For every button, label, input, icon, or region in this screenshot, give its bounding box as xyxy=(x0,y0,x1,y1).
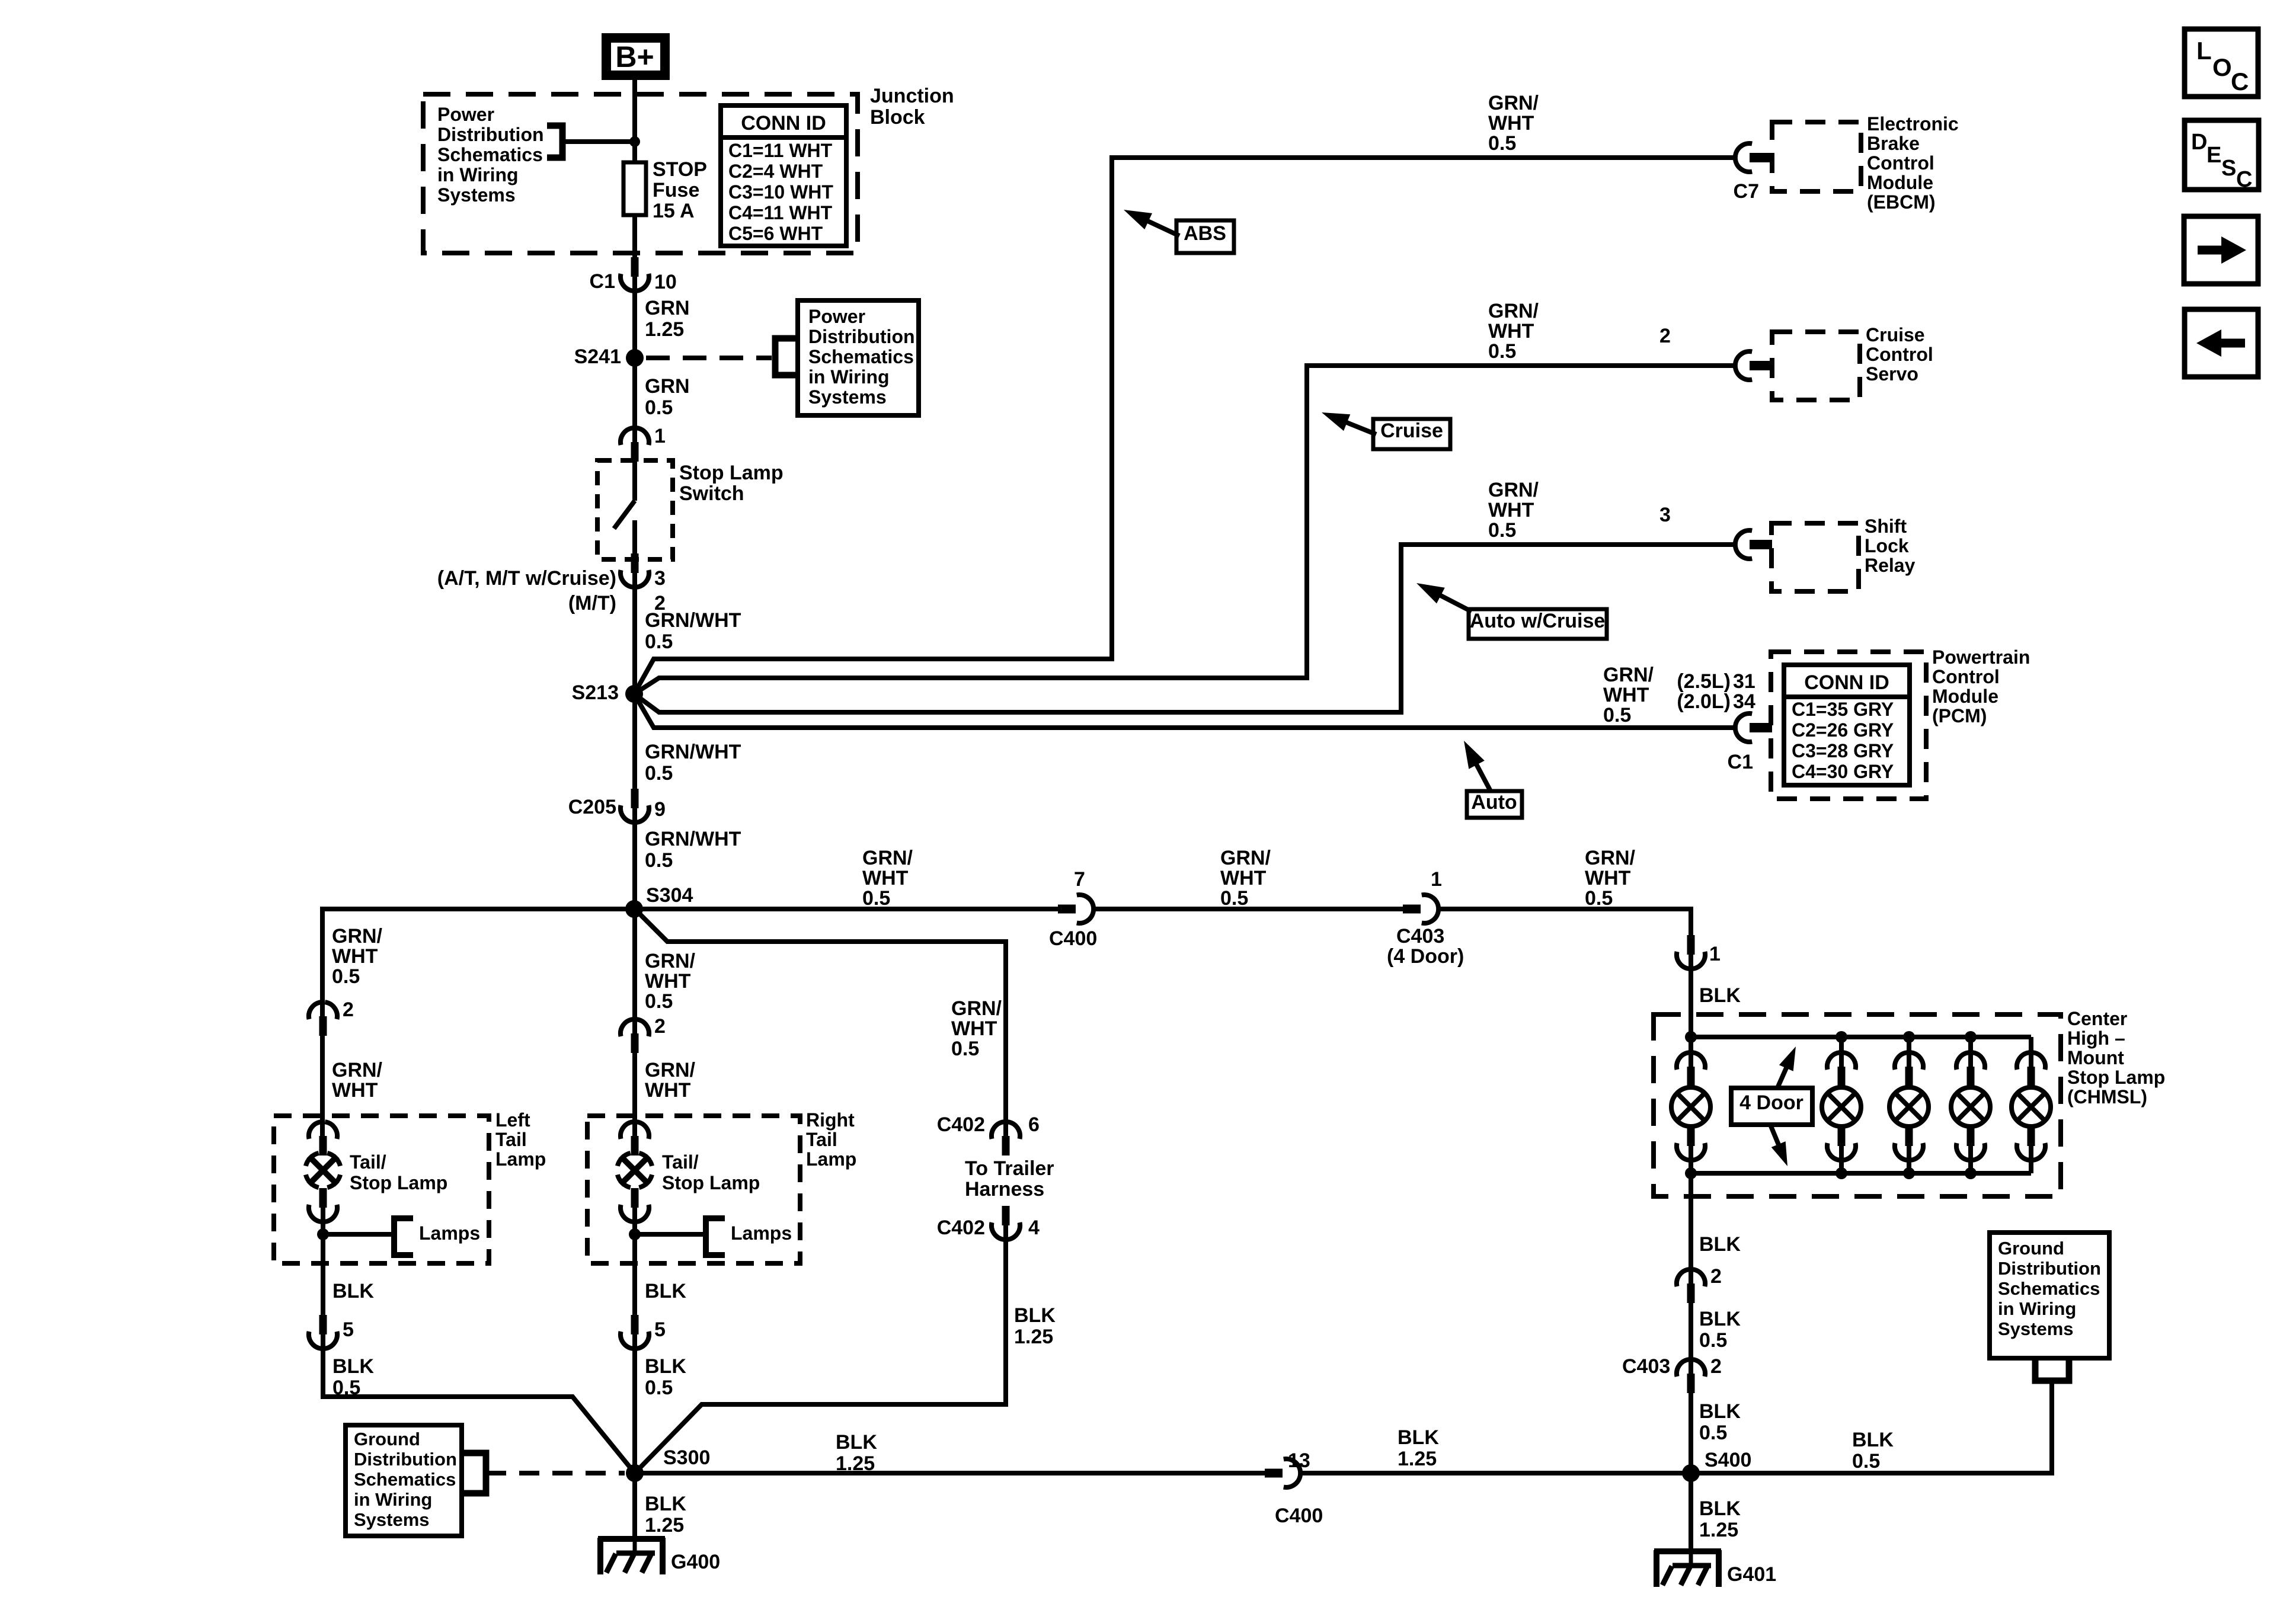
CHMSL bulb 3 xyxy=(1889,1087,1929,1126)
svg-text:C7: C7 xyxy=(1734,180,1759,203)
CHMSL bulb 2 leads xyxy=(1839,1037,1844,1067)
CHMSL bottom bus xyxy=(1691,1171,2031,1176)
svg-text:Stop Lamp: Stop Lamp xyxy=(2067,1067,2165,1088)
wire S213 to cruise servo xyxy=(634,366,1735,694)
wire S304 to trailer xyxy=(635,909,1006,1136)
Auto w/Cruise tag xyxy=(1469,609,1607,639)
connector C403 pin 2 xyxy=(1687,1374,1695,1393)
svg-text:C403: C403 xyxy=(1622,1355,1670,1378)
svg-text:BLK: BLK xyxy=(1699,1400,1741,1423)
splice S300 xyxy=(626,1464,644,1482)
svg-text:C402: C402 xyxy=(937,1113,985,1136)
wire C403-2 to S400 xyxy=(1689,1393,1693,1473)
svg-text:Right: Right xyxy=(806,1109,855,1131)
splice S241 xyxy=(626,349,644,367)
svg-text:WHT: WHT xyxy=(1488,320,1534,343)
svg-text:Power: Power xyxy=(808,306,865,327)
svg-text:C2=4 WHT: C2=4 WHT xyxy=(728,161,823,182)
svg-text:BLK: BLK xyxy=(332,1280,374,1302)
svg-text:C400: C400 xyxy=(1275,1505,1323,1527)
svg-text:Cruise: Cruise xyxy=(1380,420,1443,442)
svg-text:Lock: Lock xyxy=(1865,535,1909,556)
svg-text:GRN/WHT: GRN/WHT xyxy=(645,609,741,632)
CHMSL bulb 1 xyxy=(1671,1087,1710,1126)
svg-text:in Wiring: in Wiring xyxy=(808,366,890,388)
wire to C403 pin 2 xyxy=(1689,1303,1693,1374)
svg-text:Lamps: Lamps xyxy=(731,1222,792,1244)
svg-text:C3=10 WHT: C3=10 WHT xyxy=(728,181,833,203)
ground distribution box right xyxy=(1990,1233,2109,1358)
svg-text:C4=11 WHT: C4=11 WHT xyxy=(728,202,833,223)
svg-text:2: 2 xyxy=(1710,1265,1722,1288)
right Lamps bracket wire xyxy=(635,1232,706,1237)
right lamp bulb xyxy=(639,1174,652,1188)
svg-text:Lamp: Lamp xyxy=(806,1148,856,1170)
svg-text:Tail: Tail xyxy=(495,1129,527,1150)
svg-text:BLK: BLK xyxy=(1398,1426,1439,1449)
ABS arrow xyxy=(1145,220,1179,236)
svg-text:Systems: Systems xyxy=(437,184,516,206)
wire S304 middle xyxy=(632,909,637,1033)
power distribution ref box xyxy=(798,300,919,415)
svg-text:S241: S241 xyxy=(574,345,621,368)
EBCM box xyxy=(1772,122,1861,191)
CHMSL box xyxy=(1654,1014,2061,1196)
svg-text:G400: G400 xyxy=(671,1551,720,1573)
svg-text:C3=28 GRY: C3=28 GRY xyxy=(1792,740,1894,761)
svg-text:Systems: Systems xyxy=(808,386,887,408)
svg-text:2: 2 xyxy=(1710,1355,1722,1378)
svg-text:GRN/: GRN/ xyxy=(1603,664,1654,686)
svg-text:C1=35 GRY: C1=35 GRY xyxy=(1792,699,1894,720)
svg-text:0.5: 0.5 xyxy=(645,849,673,872)
ground distribution box left xyxy=(346,1425,462,1536)
right lamp bottom connector xyxy=(631,1188,639,1208)
svg-text:Auto w/Cruise: Auto w/Cruise xyxy=(1470,610,1606,632)
connector left lamp pin 5 xyxy=(319,1315,327,1334)
svg-text:Tail/: Tail/ xyxy=(350,1151,386,1173)
wire right lamp to S300 xyxy=(632,1334,637,1473)
cruise control servo box xyxy=(1772,332,1860,400)
svg-text:in Wiring: in Wiring xyxy=(437,164,519,185)
svg-text:E: E xyxy=(2207,143,2221,168)
node CHMSL bottom bus xyxy=(1685,1167,1697,1179)
svg-text:0.5: 0.5 xyxy=(951,1038,979,1060)
wire S300 to G400 xyxy=(632,1473,637,1539)
svg-text:2: 2 xyxy=(654,1015,666,1038)
svg-text:Auto: Auto xyxy=(1471,791,1517,814)
svg-text:Control: Control xyxy=(1866,344,1933,365)
svg-text:Power: Power xyxy=(437,104,494,125)
wire trailer to S300 xyxy=(635,1225,1006,1473)
ground G401 xyxy=(1654,1548,1721,1554)
svg-text:Servo: Servo xyxy=(1866,363,1918,385)
svg-text:0.5: 0.5 xyxy=(645,1377,673,1399)
CHMSL top bus xyxy=(1691,1035,2031,1039)
svg-text:BLK: BLK xyxy=(1699,1308,1741,1330)
wire into CHMSL xyxy=(1689,955,1693,1037)
svg-text:Control: Control xyxy=(1932,666,2000,687)
node left lamp xyxy=(317,1228,329,1240)
svg-text:0.5: 0.5 xyxy=(1220,887,1248,910)
stop lamp switch contacts xyxy=(632,462,637,501)
svg-text:C400: C400 xyxy=(1049,927,1097,950)
svg-text:High –: High – xyxy=(2067,1028,2125,1049)
svg-text:0.5: 0.5 xyxy=(862,887,890,910)
svg-text:WHT: WHT xyxy=(645,1079,691,1102)
node CHMSL top bus xyxy=(1835,1031,1847,1043)
svg-text:9: 9 xyxy=(654,798,666,821)
battery feed B+ terminal xyxy=(606,38,665,75)
svg-text:0.5: 0.5 xyxy=(645,762,673,785)
svg-text:(2.5L): (2.5L) xyxy=(1677,670,1731,693)
wire C403 to CHMSL xyxy=(1438,909,1691,936)
connector right lamp pin 5 xyxy=(631,1315,639,1334)
wire fuse to C1 xyxy=(632,215,637,263)
power distribution bracket xyxy=(547,126,562,158)
svg-text:Tail/: Tail/ xyxy=(662,1151,699,1173)
svg-text:GRN/: GRN/ xyxy=(332,925,383,948)
right lamp wire to node xyxy=(632,1208,637,1234)
svg-text:7: 7 xyxy=(1074,868,1085,891)
svg-text:0.5: 0.5 xyxy=(1585,887,1613,910)
svg-text:in Wiring: in Wiring xyxy=(1998,1298,2076,1319)
CHMSL bulb 1 leads xyxy=(1689,1037,1693,1067)
shift lock relay box xyxy=(1771,523,1859,591)
svg-text:GRN/: GRN/ xyxy=(645,1059,696,1081)
connector right lamp pin 2 xyxy=(631,1033,639,1053)
svg-text:BLK: BLK xyxy=(645,1280,686,1302)
svg-text:2: 2 xyxy=(343,998,354,1021)
svg-text:0.5: 0.5 xyxy=(1699,1422,1727,1444)
node CHMSL bottom bus xyxy=(1965,1167,1977,1179)
svg-text:WHT: WHT xyxy=(1220,867,1267,889)
svg-text:Module: Module xyxy=(1932,686,1998,707)
wire C1 to stop lamp switch xyxy=(632,277,637,442)
svg-text:Stop Lamp: Stop Lamp xyxy=(350,1172,447,1193)
wire to right lamp xyxy=(632,1053,637,1136)
svg-text:C205: C205 xyxy=(568,796,616,818)
left lamp bottom connector xyxy=(319,1188,327,1208)
prev page icon xyxy=(2185,309,2258,377)
svg-text:WHT: WHT xyxy=(1585,867,1631,889)
right Lamps bracket xyxy=(706,1218,725,1255)
svg-text:GRN/: GRN/ xyxy=(1488,92,1539,114)
wire switch to C205 xyxy=(632,573,637,790)
svg-text:Harness: Harness xyxy=(965,1178,1044,1201)
CHMSL bulb 1 bottom connector xyxy=(1687,1126,1695,1146)
connector left lamp pin 2 xyxy=(319,1016,327,1036)
PCM CONN ID table xyxy=(1784,665,1910,785)
connector C1 pin 10 xyxy=(631,257,639,277)
node CHMSL top bus xyxy=(1903,1031,1915,1043)
svg-text:WHT: WHT xyxy=(1488,499,1534,521)
svg-text:0.5: 0.5 xyxy=(1699,1329,1727,1352)
svg-text:Distribution: Distribution xyxy=(354,1449,457,1470)
junction block CONN ID table xyxy=(721,105,846,246)
svg-text:(2.0L): (2.0L) xyxy=(1677,690,1731,713)
svg-text:WHT: WHT xyxy=(862,867,909,889)
svg-text:BLK: BLK xyxy=(332,1355,374,1378)
svg-text:BLK: BLK xyxy=(1852,1429,1894,1451)
svg-text:0.5: 0.5 xyxy=(332,965,360,988)
svg-text:Control: Control xyxy=(1867,152,1934,174)
connector C402 pin 4 xyxy=(1002,1206,1010,1225)
svg-text:0.5: 0.5 xyxy=(1852,1450,1880,1473)
svg-text:Switch: Switch xyxy=(679,482,744,505)
wire CHMSL out xyxy=(1689,1173,1693,1283)
svg-text:Schematics: Schematics xyxy=(808,346,914,367)
svg-text:WHT: WHT xyxy=(645,970,691,993)
ground G400 xyxy=(598,1536,665,1542)
connector C7 xyxy=(1750,153,1772,162)
CHMSL bulb 3 top connector xyxy=(1905,1067,1913,1086)
CHMSL bulb 2 bottom connector xyxy=(1838,1126,1846,1146)
svg-text:Stop Lamp: Stop Lamp xyxy=(679,462,784,484)
wire bracket to main xyxy=(562,139,635,144)
connector C403 pin 1 xyxy=(1403,905,1421,914)
svg-text:Distribution: Distribution xyxy=(808,326,915,347)
svg-text:1.25: 1.25 xyxy=(1699,1519,1738,1541)
svg-text:0.5: 0.5 xyxy=(645,396,673,419)
svg-text:31: 31 xyxy=(1733,670,1755,693)
svg-text:ABS: ABS xyxy=(1184,222,1226,245)
CHMSL bulb 3 leads xyxy=(1907,1037,1911,1067)
right lamp wire down xyxy=(632,1234,637,1317)
svg-text:S304: S304 xyxy=(646,884,693,907)
svg-text:Block: Block xyxy=(870,106,925,129)
left Lamps bracket wire xyxy=(323,1232,394,1237)
svg-text:Relay: Relay xyxy=(1865,555,1916,576)
CHMSL bulb 3 bottom connector xyxy=(1905,1126,1913,1146)
svg-text:WHT: WHT xyxy=(1603,684,1649,706)
svg-text:1.25: 1.25 xyxy=(1014,1326,1053,1348)
svg-text:Cruise: Cruise xyxy=(1866,324,1925,345)
svg-text:WHT: WHT xyxy=(1488,112,1534,135)
svg-text:1.25: 1.25 xyxy=(1398,1448,1437,1470)
svg-text:Junction: Junction xyxy=(870,85,954,107)
svg-text:Systems: Systems xyxy=(354,1509,430,1530)
splice S213 xyxy=(625,685,643,703)
CHMSL bulb 4 bottom connector xyxy=(1967,1126,1975,1146)
svg-text:Tail: Tail xyxy=(806,1129,837,1150)
svg-text:13: 13 xyxy=(1288,1449,1310,1472)
svg-text:C5=6 WHT: C5=6 WHT xyxy=(728,223,823,244)
svg-text:C1=11 WHT: C1=11 WHT xyxy=(728,140,833,161)
wire S300 to C400-13 xyxy=(635,1471,1267,1475)
svg-text:BLK: BLK xyxy=(836,1431,877,1454)
svg-text:CONN ID: CONN ID xyxy=(741,112,826,135)
CHMSL bulb 5 top connector xyxy=(2028,1067,2035,1086)
node fuse tap xyxy=(629,136,640,147)
connector relay pin 3 xyxy=(1750,540,1772,549)
svg-text:Lamps: Lamps xyxy=(419,1222,480,1244)
svg-text:C403: C403 xyxy=(1396,925,1444,948)
4 Door tag xyxy=(1731,1088,1812,1125)
svg-text:0.5: 0.5 xyxy=(1603,704,1631,726)
wire S400 right xyxy=(1691,1378,2052,1473)
CHMSL bulb 4 xyxy=(1951,1087,1990,1126)
svg-text:(EBCM): (EBCM) xyxy=(1867,191,1936,213)
svg-text:STOP: STOP xyxy=(653,158,707,181)
svg-text:34: 34 xyxy=(1733,690,1755,713)
wire S213 to PCM xyxy=(634,694,1735,728)
S400 ref bracket xyxy=(2035,1358,2069,1381)
svg-text:L: L xyxy=(2196,37,2212,65)
CHMSL bulb 5 xyxy=(2012,1087,2051,1126)
svg-text:GRN/: GRN/ xyxy=(1585,847,1636,869)
svg-text:C: C xyxy=(2231,68,2249,95)
connector C400 pin 7 xyxy=(1058,905,1076,914)
connector C402 pin 6 xyxy=(1002,1136,1010,1156)
svg-text:Brake: Brake xyxy=(1867,133,1920,154)
svg-text:Center: Center xyxy=(2067,1008,2127,1029)
CHMSL bulb 4 leads xyxy=(1968,1037,1973,1067)
connector 1 stop lamp switch xyxy=(631,442,639,462)
connector CHMSL pin 1 xyxy=(1687,935,1695,955)
svg-text:Powertrain: Powertrain xyxy=(1932,646,2030,668)
svg-text:4: 4 xyxy=(1028,1217,1040,1239)
left lamp wire down xyxy=(321,1234,325,1317)
svg-text:GRN/: GRN/ xyxy=(645,950,696,972)
svg-text:Schematics: Schematics xyxy=(1998,1278,2100,1299)
S300 ref bracket xyxy=(462,1453,486,1493)
svg-text:C1: C1 xyxy=(1728,751,1753,773)
svg-text:Stop Lamp: Stop Lamp xyxy=(662,1172,760,1193)
svg-text:Schematics: Schematics xyxy=(437,144,543,165)
right lamp top connector xyxy=(631,1136,639,1156)
svg-text:Ground: Ground xyxy=(354,1429,420,1449)
LOC icon xyxy=(2185,29,2258,97)
svg-text:(A/T, M/T w/Cruise): (A/T, M/T w/Cruise) xyxy=(437,567,616,590)
svg-text:S400: S400 xyxy=(1705,1449,1751,1471)
svg-text:Schematics: Schematics xyxy=(354,1469,456,1490)
svg-text:Left: Left xyxy=(495,1109,530,1131)
connector C205 pin 9 xyxy=(631,789,639,808)
left lamp bulb xyxy=(327,1174,340,1188)
svg-text:G401: G401 xyxy=(1727,1563,1776,1586)
svg-text:1: 1 xyxy=(654,425,666,447)
right tail lamp box xyxy=(587,1116,800,1263)
svg-text:WHT: WHT xyxy=(332,1079,378,1102)
connector servo pin 2 xyxy=(1750,361,1772,370)
CHMSL bulb 2 xyxy=(1822,1087,1861,1126)
svg-text:S213: S213 xyxy=(572,681,619,704)
connector CHMSL pin 2 xyxy=(1687,1283,1695,1303)
node CHMSL bottom bus xyxy=(1835,1167,1847,1179)
wire S304 to C400 xyxy=(635,907,1059,911)
Auto w/Cruise arrow xyxy=(1438,594,1472,612)
svg-text:5: 5 xyxy=(343,1318,354,1341)
svg-text:BLK: BLK xyxy=(1699,1497,1741,1520)
svg-text:0.5: 0.5 xyxy=(645,990,673,1013)
wire C400 to C403 xyxy=(1093,907,1404,911)
svg-text:WHT: WHT xyxy=(332,945,378,968)
svg-text:Mount: Mount xyxy=(2067,1047,2124,1068)
svg-text:GRN: GRN xyxy=(645,375,690,398)
wire C205 to S304 xyxy=(632,808,637,909)
svg-text:(M/T): (M/T) xyxy=(568,592,616,614)
svg-text:(PCM): (PCM) xyxy=(1932,705,1987,726)
CHMSL bulb 4 top connector xyxy=(1967,1067,1975,1086)
splice S304 xyxy=(625,900,643,918)
wire S400 to G401 xyxy=(1689,1473,1693,1551)
svg-text:CONN ID: CONN ID xyxy=(1804,671,1889,694)
svg-text:GRN/: GRN/ xyxy=(1220,847,1271,869)
svg-text:B+: B+ xyxy=(615,40,654,73)
splice S400 xyxy=(1682,1464,1700,1482)
left lamp top connector xyxy=(319,1136,327,1156)
svg-text:6: 6 xyxy=(1028,1113,1040,1136)
connector C400 pin 13 xyxy=(1265,1469,1283,1478)
wire left lamp to S300 xyxy=(323,1334,635,1473)
svg-text:S: S xyxy=(2221,156,2236,181)
svg-text:GRN/: GRN/ xyxy=(332,1059,383,1081)
svg-text:GRN/WHT: GRN/WHT xyxy=(645,828,741,850)
wire S213 to shift lock relay xyxy=(634,545,1735,712)
dashed ref wire S241 xyxy=(646,356,772,360)
svg-text:BLK: BLK xyxy=(1699,1233,1741,1256)
CHMSL bulb 2 top connector xyxy=(1838,1067,1846,1086)
svg-text:Fuse: Fuse xyxy=(653,179,699,201)
node right lamp xyxy=(629,1228,641,1240)
dashed ref wire S300 xyxy=(486,1471,625,1475)
svg-text:Ground: Ground xyxy=(1998,1238,2064,1259)
svg-text:Systems: Systems xyxy=(1998,1318,2074,1339)
wire to left lamp xyxy=(320,1036,325,1136)
svg-text:1.25: 1.25 xyxy=(645,318,684,341)
left tail lamp box xyxy=(274,1116,489,1263)
svg-text:GRN/: GRN/ xyxy=(951,997,1002,1020)
svg-text:1.25: 1.25 xyxy=(645,1514,684,1537)
svg-text:GRN/: GRN/ xyxy=(1488,300,1539,322)
svg-text:GRN/: GRN/ xyxy=(1488,479,1539,501)
Auto arrow xyxy=(1475,761,1491,791)
svg-text:GRN: GRN xyxy=(645,297,690,319)
svg-text:Shift: Shift xyxy=(1865,516,1907,537)
left lamp wire to node xyxy=(321,1208,325,1234)
wire C400-13 to S400 xyxy=(1300,1471,1691,1475)
svg-text:3: 3 xyxy=(1659,504,1671,526)
svg-text:1: 1 xyxy=(1431,868,1442,891)
fuse STOP 15A xyxy=(623,162,646,215)
svg-text:0.5: 0.5 xyxy=(1488,519,1516,542)
svg-text:BLK: BLK xyxy=(1014,1304,1056,1327)
Auto tag xyxy=(1467,791,1522,818)
svg-text:WHT: WHT xyxy=(951,1017,997,1040)
CHMSL bulb 1 top connector xyxy=(1687,1067,1695,1086)
svg-text:in Wiring: in Wiring xyxy=(354,1489,432,1510)
Cruise tag xyxy=(1373,419,1450,449)
svg-text:0.5: 0.5 xyxy=(1488,340,1516,363)
svg-text:GRN/WHT: GRN/WHT xyxy=(645,741,741,763)
node CHMSL top bus xyxy=(1965,1031,1977,1043)
svg-text:Module: Module xyxy=(1867,172,1933,193)
S241 ref bracket xyxy=(775,338,799,375)
svg-text:D: D xyxy=(2191,130,2207,155)
svg-text:10: 10 xyxy=(654,271,677,293)
wire S304 left xyxy=(322,909,634,1016)
svg-text:BLK: BLK xyxy=(645,1493,686,1515)
svg-text:3: 3 xyxy=(654,567,666,590)
CHMSL bulb 5 bottom connector xyxy=(2028,1126,2035,1146)
svg-text:BLK: BLK xyxy=(645,1355,686,1378)
svg-text:BLK: BLK xyxy=(1699,984,1741,1007)
PCM box xyxy=(1771,652,1926,799)
svg-text:GRN/: GRN/ xyxy=(862,847,913,869)
svg-text:Distribution: Distribution xyxy=(1998,1258,2101,1279)
svg-text:Electronic: Electronic xyxy=(1867,113,1959,135)
